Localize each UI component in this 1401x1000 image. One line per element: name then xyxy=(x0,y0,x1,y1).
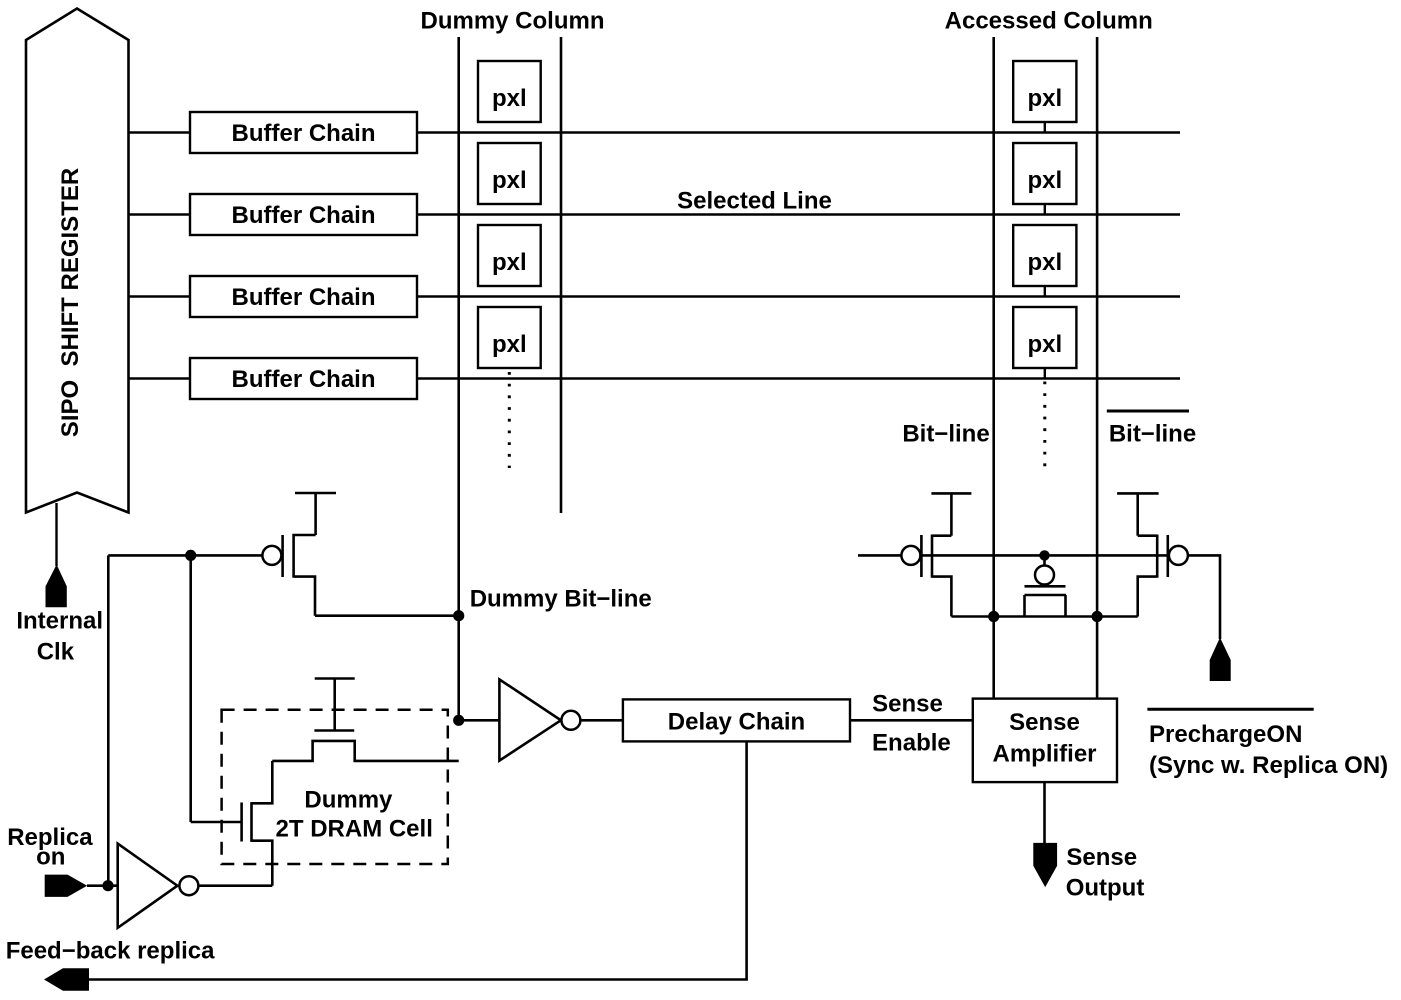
wire junction down to dummy cell gate xyxy=(189,555,192,822)
wire equalize rail xyxy=(951,615,1137,618)
pixel cell pxl D4 xyxy=(478,307,541,368)
svg-text:Delay Chain: Delay Chain xyxy=(668,709,805,736)
wire internal clk net horizontal to PMOS gate xyxy=(108,554,262,557)
svg-text:SIPO SHIFT REGISTER: SIPO SHIFT REGISTER xyxy=(57,168,84,437)
wire SIPO to B2 xyxy=(129,213,191,215)
transistor Q1 PMOS body xyxy=(262,534,315,616)
pixel cell pxl D3 xyxy=(478,225,541,286)
pin feed-back replica arrow xyxy=(44,968,89,990)
wire row line 1 xyxy=(417,131,1180,133)
svg-text:Bit−line: Bit−line xyxy=(1109,421,1196,448)
svg-text:PrechargeON: PrechargeON xyxy=(1149,721,1302,748)
wire row line 3 xyxy=(417,295,1180,297)
wire accessed bit-line-bar right vertical xyxy=(1096,37,1099,699)
pixel cell pxl D2 xyxy=(478,143,541,204)
inverter U2 (replica) xyxy=(118,844,199,928)
wire U3 to delay chain xyxy=(580,719,623,722)
svg-text:Dummy Bit−line: Dummy Bit−line xyxy=(470,585,652,612)
svg-text:pxl: pxl xyxy=(492,167,527,194)
dotted continuation accessed column xyxy=(1043,382,1046,469)
SIPO shift register block U1 xyxy=(26,9,129,513)
pixel cell pxl A3 xyxy=(1013,225,1076,286)
pin Replica on xyxy=(45,875,87,897)
wire precharge gate net xyxy=(858,555,1220,639)
wire pxl A3 stub xyxy=(1044,286,1046,297)
svg-text:pxl: pxl xyxy=(1027,249,1062,276)
transistor Q5 body xyxy=(1138,535,1188,617)
pin Internal Clk xyxy=(46,565,67,608)
buffer chain B4 xyxy=(190,358,417,399)
svg-text:Dummy: Dummy xyxy=(304,787,393,814)
svg-text:pxl: pxl xyxy=(1027,85,1062,112)
wire row line 2 (selected line) xyxy=(417,213,1180,215)
svg-text:pxl: pxl xyxy=(492,85,527,112)
svg-text:Sense: Sense xyxy=(872,690,943,717)
svg-text:Feed−back replica: Feed−back replica xyxy=(6,938,215,965)
pixel cell pxl D1 xyxy=(478,61,541,122)
svg-text:Sense: Sense xyxy=(1066,844,1137,871)
svg-text:Clk: Clk xyxy=(37,638,75,665)
svg-text:2T DRAM Cell: 2T DRAM Cell xyxy=(276,815,433,842)
buffer chain B2 xyxy=(190,194,417,235)
node rail x bit-line xyxy=(988,611,999,622)
overline of Bit-line-bar xyxy=(1107,410,1189,413)
wire SIPO to B1 xyxy=(129,131,191,133)
wire dummy column right vertical xyxy=(560,37,563,513)
svg-text:Sense: Sense xyxy=(1009,709,1080,736)
transistor Q6 equalizer xyxy=(1025,555,1067,616)
svg-text:Output: Output xyxy=(1066,875,1145,902)
svg-text:Dummy Column: Dummy Column xyxy=(420,8,604,35)
node replica junction xyxy=(102,880,113,891)
svg-text:Buffer Chain: Buffer Chain xyxy=(232,202,376,229)
buffer chain B1 xyxy=(190,112,417,153)
wire pxl A1 stub xyxy=(1044,122,1046,133)
svg-text:on: on xyxy=(36,844,65,871)
wire Q1 drain to dummy bit-line xyxy=(315,614,459,617)
pin PrechargeON xyxy=(1210,638,1231,682)
svg-text:Bit−line: Bit−line xyxy=(902,421,989,448)
svg-text:Buffer Chain: Buffer Chain xyxy=(232,366,376,393)
svg-text:pxl: pxl xyxy=(1027,331,1062,358)
pixel cell pxl A2 xyxy=(1013,143,1076,204)
wire delay chain to sense amplifier (sense enable) xyxy=(850,719,973,722)
node dummy bit-line to inverter junction xyxy=(453,715,464,726)
wire sense output xyxy=(1043,782,1046,844)
wire row line 4 xyxy=(417,377,1180,379)
svg-text:Buffer Chain: Buffer Chain xyxy=(232,284,376,311)
wire dummy bit-line (left dummy column vertical) xyxy=(457,37,460,720)
buffer chain B3 xyxy=(190,276,417,317)
svg-text:(Sync w. Replica ON): (Sync w. Replica ON) xyxy=(1149,752,1388,779)
svg-text:Accessed Column: Accessed Column xyxy=(945,8,1153,35)
svg-text:Amplifier: Amplifier xyxy=(992,740,1096,767)
transistor Q2 (dummy cell top) supply T xyxy=(315,679,355,731)
pixel cell pxl A4 xyxy=(1013,307,1076,368)
wire pxl A4 stub xyxy=(1044,368,1046,379)
pin Sense Output arrow xyxy=(1033,843,1057,887)
transistor Q2 body (horizontal channel) xyxy=(272,731,458,761)
transistor Q4 PMOS precharge left: supply T xyxy=(931,493,971,535)
dummy 2T DRAM cell dashed box xyxy=(222,710,448,864)
node Internal Clk wire from SIPO xyxy=(55,503,57,566)
node junction on clk net xyxy=(185,550,196,561)
wire SIPO to B3 xyxy=(129,295,191,297)
sense amplifier box xyxy=(973,699,1117,783)
wire delay chain down (feedback) xyxy=(89,741,747,979)
wire replica feedback vertical xyxy=(107,555,110,885)
pixel cell pxl A1 xyxy=(1013,61,1076,122)
wire pxl A2 stub xyxy=(1044,204,1046,215)
svg-text:pxl: pxl xyxy=(1027,167,1062,194)
node dummy bit-line junction xyxy=(453,610,464,621)
svg-text:Enable: Enable xyxy=(872,730,951,757)
svg-text:pxl: pxl xyxy=(492,249,527,276)
wire accessed bit-line left vertical xyxy=(992,37,995,699)
svg-text:Internal: Internal xyxy=(16,607,103,634)
node rail x bit-line-bar xyxy=(1092,611,1103,622)
transistor Q4 body xyxy=(901,535,951,617)
inverter U3 xyxy=(499,679,580,760)
transistor Q1 PMOS dummy precharge: supply T xyxy=(295,493,336,535)
dotted continuation dummy column xyxy=(508,372,511,468)
wire dot to inverter U3 input xyxy=(459,719,500,722)
svg-text:pxl: pxl xyxy=(492,331,527,358)
delay chain box xyxy=(623,699,850,741)
transistor Q5 PMOS precharge right: supply T xyxy=(1117,493,1159,535)
wire SIPO to B4 xyxy=(129,377,191,379)
wire gate of Q3 xyxy=(191,821,242,824)
node equalizer gate junction xyxy=(1039,550,1049,560)
overline PrechargeON xyxy=(1147,708,1313,711)
wire replica pin to inverter xyxy=(87,884,118,887)
transistor Q3 (dummy cell access) body xyxy=(242,761,273,886)
svg-text:Buffer Chain: Buffer Chain xyxy=(232,120,376,147)
svg-text:Selected Line: Selected Line xyxy=(677,188,832,215)
wire U2 output to dummy cell xyxy=(198,884,272,887)
